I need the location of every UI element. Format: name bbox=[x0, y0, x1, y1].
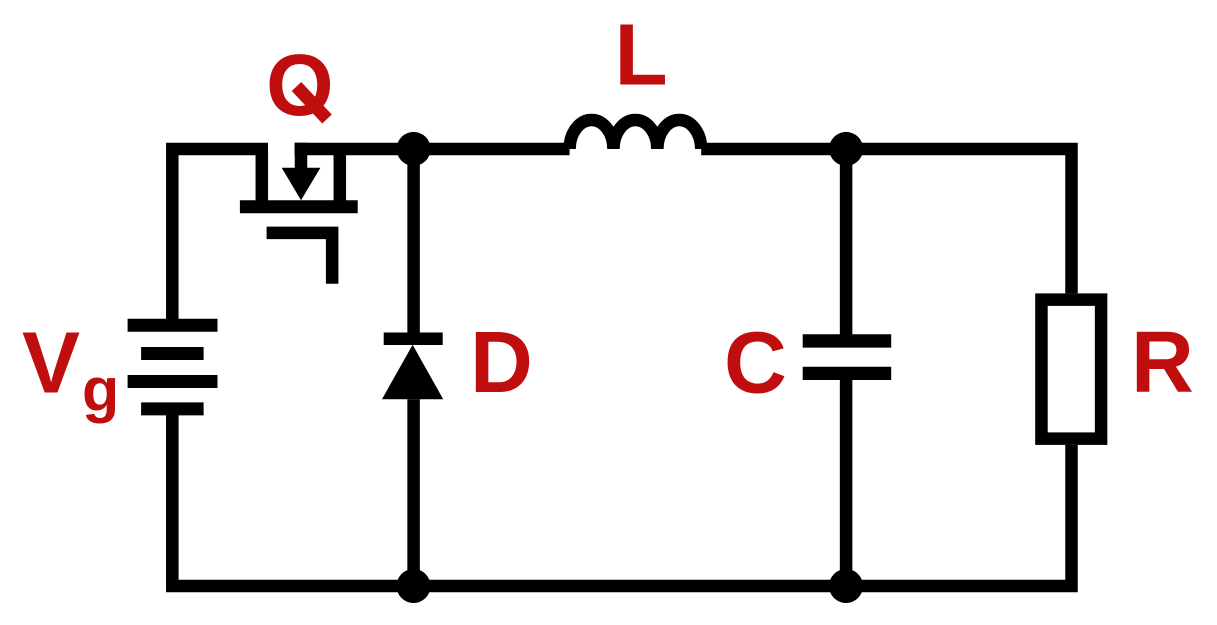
battery Vg short plate 2 bbox=[141, 347, 204, 360]
wire diode branch upper bbox=[407, 149, 420, 339]
wire resistor to bottom rail and bottom rail to battery bbox=[172, 409, 1071, 586]
node B junction dot bbox=[829, 132, 863, 166]
wire node B to top-right corner down to resistor bbox=[846, 149, 1071, 293]
transistor Q arrowhead bbox=[282, 168, 321, 201]
battery Vg short plate 4 bbox=[141, 402, 204, 415]
capacitor C top plate bbox=[803, 334, 892, 347]
wire diode branch lower bbox=[407, 399, 420, 586]
wire node A to inductor bbox=[414, 143, 570, 156]
transistor Q drain lead bbox=[256, 149, 269, 207]
svg-text:C: C bbox=[724, 315, 787, 412]
wire capacitor branch upper bbox=[840, 149, 853, 341]
svg-text:R: R bbox=[1131, 314, 1194, 411]
svg-text:D: D bbox=[470, 314, 533, 411]
node A junction dot bbox=[397, 132, 431, 166]
inductor L bbox=[570, 120, 702, 149]
transistor Q channel bar bbox=[240, 200, 358, 213]
wire inductor to node B bbox=[701, 143, 846, 156]
diode D cathode bar bbox=[384, 332, 443, 345]
transistor Q gate bbox=[267, 233, 333, 284]
transistor Q arrow lead from top rail bbox=[295, 143, 308, 175]
battery Vg long plate 3 bbox=[128, 375, 218, 388]
diode D triangle bbox=[382, 345, 443, 400]
node bottom-left junction dot bbox=[397, 569, 431, 603]
capacitor C bottom plate bbox=[803, 367, 892, 380]
resistor R body bbox=[1041, 300, 1101, 439]
wire top-left rail from battery up and right to MOSFET drain bbox=[172, 149, 268, 325]
transistor Q source lead bbox=[334, 149, 347, 207]
wire capacitor branch lower bbox=[840, 373, 853, 586]
svg-text:Vg: Vg bbox=[22, 314, 119, 423]
wire left rail battery bottom to bottom-left corner bbox=[166, 409, 179, 586]
svg-text:L: L bbox=[615, 7, 668, 104]
wire top rail MOSFET source to node A bbox=[295, 143, 414, 156]
node bottom-right junction dot bbox=[829, 569, 863, 603]
battery Vg long plate 1 bbox=[128, 319, 218, 332]
